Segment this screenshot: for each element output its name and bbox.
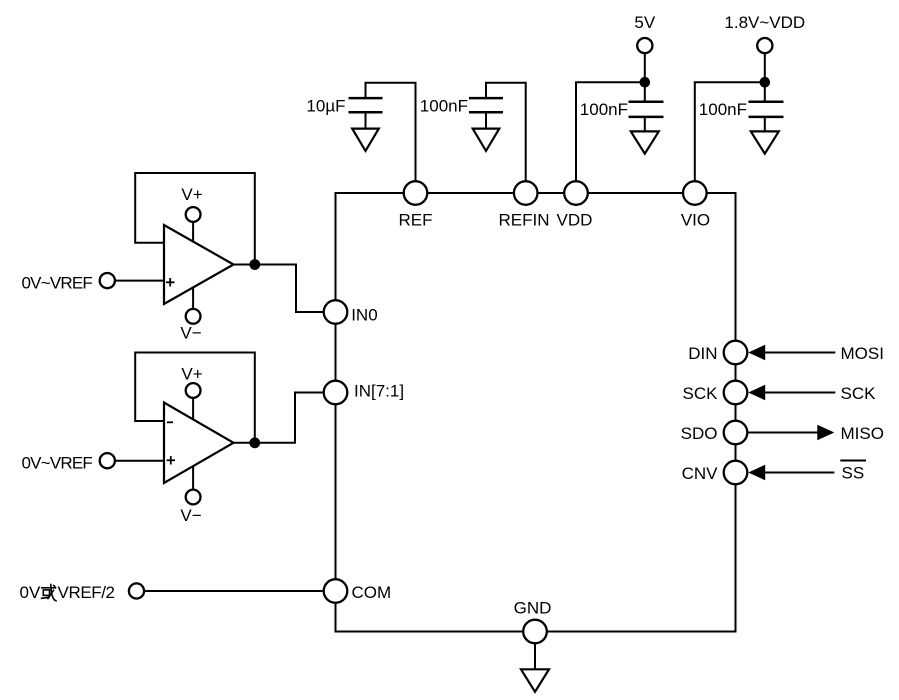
svg-text:100nF: 100nF [580,100,628,119]
svg-text:5V: 5V [634,13,655,32]
terminal 5V [634,13,655,53]
pin V+ of U2 [181,185,202,243]
wire SS arrow [748,461,866,483]
wire [534,644,536,669]
node VDD junction [640,77,651,88]
svg-text:REF: REF [399,211,433,230]
ground [473,112,500,151]
wire [764,53,766,102]
svg-text:SS: SS [842,464,865,483]
svg-text:V−: V− [180,506,201,525]
svg-text:100nF: 100nF [420,97,468,116]
ground [631,117,659,154]
svg-text:1.8V~VDD: 1.8V~VDD [724,13,805,32]
svg-text:REFIN: REFIN [499,211,550,230]
pin VIO [681,181,710,229]
svg-text:SCK: SCK [683,384,719,403]
wire [115,460,164,462]
pin GND [514,599,552,644]
wire [644,53,646,102]
wire [486,83,526,181]
wire SCK arrow [748,384,876,403]
feedback wire [135,173,255,265]
svg-text:VIO: VIO [681,211,710,230]
svg-text:V+: V+ [181,365,202,384]
node U2 output [249,259,260,270]
svg-text:V−: V− [180,324,201,343]
pin COM [324,579,391,603]
pin REF [399,181,433,229]
capacitor C4 100nF [699,100,784,119]
svg-text:V+: V+ [181,185,202,204]
wire [695,82,765,181]
capacitor C1 10µF [306,83,415,181]
svg-text:MISO: MISO [841,424,884,443]
op-amp U2 [135,173,255,304]
svg-text:SCK: SCK [841,384,877,403]
wire MISO arrow [748,424,884,443]
wire [576,82,645,181]
svg-text:0V~VREF: 0V~VREF [22,454,93,473]
terminal 0V or VREF/2 [20,583,145,602]
terminal 1.8V~VDD [724,13,805,53]
svg-text:GND: GND [514,599,552,618]
op-amp U3 [135,353,255,484]
pin IN0 [324,300,378,324]
wire [144,590,323,592]
svg-text:MOSI: MOSI [841,344,884,363]
terminal 0V~VREF (upper) [22,273,115,293]
wire [234,265,323,313]
pin IN[7:1] [324,381,404,405]
pin DIN [688,341,747,365]
pin V- of U2 [180,287,201,343]
svg-text:0V~VREF: 0V~VREF [22,274,93,293]
svg-text:100nF: 100nF [699,100,747,119]
svg-text:10µF: 10µF [306,97,345,116]
svg-text:IN[7:1]: IN[7:1] [354,382,404,401]
feedback wire [135,353,255,443]
svg-text:VDD: VDD [557,211,593,230]
capacitor C2 100nF [420,83,526,181]
wire [366,83,416,181]
svg-text:DIN: DIN [688,344,717,363]
IC U1 body [336,193,736,632]
wire [234,393,323,443]
wire MOSI arrow [748,344,884,363]
pin CNV [682,461,748,485]
glyph 或 [41,584,57,601]
terminal 0V~VREF (lower) [22,453,115,472]
svg-text:0V: 0V [20,583,41,602]
svg-text:VREF/2: VREF/2 [58,583,115,602]
pin VDD [557,181,593,229]
pin REFIN [499,181,550,229]
svg-text:CNV: CNV [682,464,719,483]
svg-text:SDO: SDO [681,424,718,443]
svg-text:IN0: IN0 [351,305,377,324]
ground [352,112,379,151]
pin V- of U3 [180,466,201,525]
node U3 output [249,437,260,448]
pin SDO [681,421,748,445]
svg-text:COM: COM [352,583,392,602]
capacitor C3 100nF [580,100,664,119]
pin SCK [683,381,748,405]
ground [521,669,549,692]
node VIO junction [760,77,771,88]
pin V+ of U3 [181,365,202,420]
ground [751,117,779,154]
wire [115,280,164,282]
